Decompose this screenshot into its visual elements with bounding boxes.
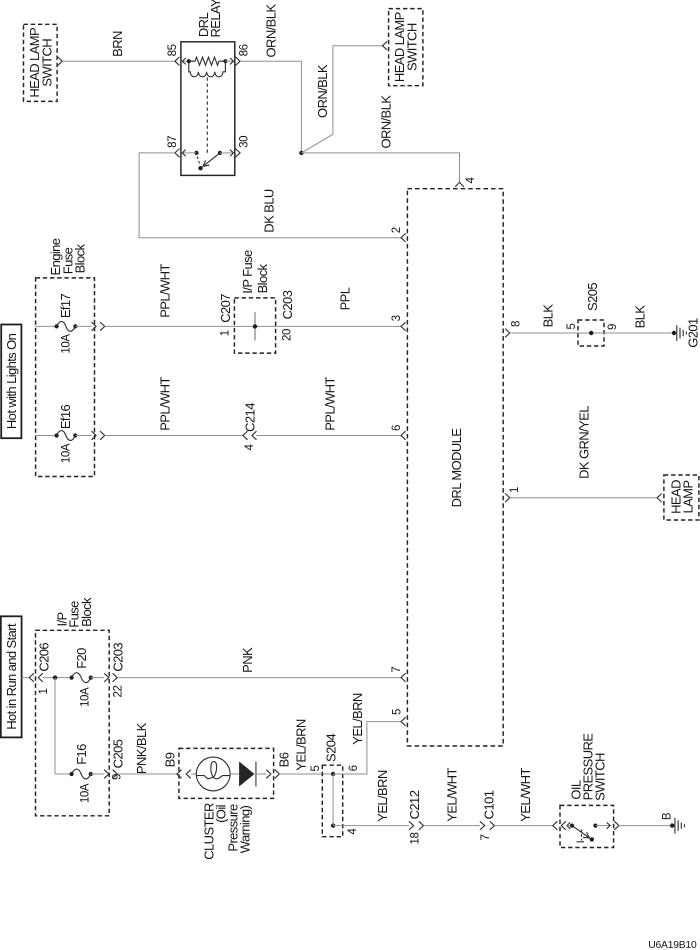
oil switch contacts <box>570 824 598 842</box>
svg-text:6: 6 <box>348 765 360 771</box>
wire to ground B <box>619 825 672 827</box>
svg-text:9: 9 <box>607 324 619 330</box>
wire YEL/BRN to S204 <box>279 773 333 775</box>
svg-text:SWITCH: SWITCH <box>593 753 608 801</box>
svg-text:Block: Block <box>79 597 94 627</box>
svg-text:4: 4 <box>347 828 359 835</box>
svg-text:86: 86 <box>239 44 251 56</box>
relay switch contacts <box>194 151 222 171</box>
svg-text:YEL/BRN: YEL/BRN <box>375 770 390 822</box>
svg-text:U6A19B10: U6A19B10 <box>648 940 697 950</box>
relay coil resistor element <box>187 57 228 65</box>
svg-text:5: 5 <box>310 766 322 772</box>
Hot in Run and Start box <box>1 616 22 737</box>
svg-text:2: 2 <box>391 227 403 233</box>
svg-text:ORN/BLK: ORN/BLK <box>315 64 330 118</box>
pin chevron head lamp switch left <box>58 57 63 66</box>
svg-text:Block: Block <box>73 244 88 274</box>
svg-text:BLK: BLK <box>633 305 648 329</box>
svg-text:C101: C101 <box>481 790 496 819</box>
svg-text:F16: F16 <box>74 744 89 765</box>
svg-text:10A: 10A <box>61 443 73 463</box>
fuse F16 10A <box>70 744 93 803</box>
svg-text:C206: C206 <box>37 643 52 672</box>
svg-text:SWITCH: SWITCH <box>40 39 55 87</box>
svg-text:PPL: PPL <box>338 287 353 310</box>
head lamp switch (left) box <box>24 24 58 101</box>
svg-text:30: 30 <box>239 136 251 148</box>
cluster box <box>179 748 274 859</box>
wire BLK right <box>604 332 672 334</box>
connector C212 <box>407 790 423 844</box>
connector C203 (lower) <box>91 643 126 698</box>
oil pressure switch box <box>560 733 614 848</box>
svg-text:ORN/BLK: ORN/BLK <box>378 95 393 149</box>
svg-text:87: 87 <box>167 136 179 148</box>
wire PNK/BLK <box>117 773 177 775</box>
pin 8 of DRL module <box>505 321 523 337</box>
oil switch exit chevrons <box>595 821 619 830</box>
connector C207 labels <box>218 294 233 337</box>
splice node junction <box>53 675 57 679</box>
svg-text:4: 4 <box>244 444 256 451</box>
svg-text:SWITCH: SWITCH <box>405 23 420 71</box>
wire ORN/BLK to DRL module pin 4 <box>301 153 459 182</box>
svg-text:4: 4 <box>465 177 477 184</box>
svg-text:DRL MODULE: DRL MODULE <box>449 428 464 508</box>
pin 86 <box>225 44 250 65</box>
svg-text:PNK/BLK: PNK/BLK <box>134 722 149 774</box>
svg-text:20: 20 <box>281 329 293 341</box>
pin 5 of DRL module <box>392 709 406 726</box>
pin 6 of DRL module <box>391 425 406 440</box>
fuse F20 10A <box>70 648 93 707</box>
relay actuator dashed line <box>206 78 208 156</box>
wire YEL/WHT 1 <box>424 825 480 827</box>
Hot with Lights On box <box>1 325 21 439</box>
I/P Fuse Block (middle) box <box>234 250 275 353</box>
svg-text:B: B <box>662 812 674 820</box>
diode <box>230 762 266 787</box>
wire junction down to F16 <box>54 678 56 774</box>
wire BLK left <box>510 332 578 334</box>
svg-text:C207: C207 <box>218 294 233 323</box>
svg-text:C212: C212 <box>407 790 422 819</box>
fuse Ef16 10A <box>36 404 105 463</box>
svg-text:C203: C203 <box>111 643 126 672</box>
connector C203 labels (middle) <box>280 290 295 341</box>
I/P Fuse Block (lower) box <box>36 597 110 816</box>
svg-text:22: 22 <box>112 686 124 698</box>
svg-text:7: 7 <box>391 667 403 673</box>
svg-text:YEL/WHT: YEL/WHT <box>445 768 460 822</box>
wire PPL/WHT row2 left <box>105 435 243 437</box>
svg-text:G201: G201 <box>686 318 700 348</box>
pin 87 <box>167 136 196 157</box>
head lamp box <box>664 475 699 520</box>
svg-text:8: 8 <box>511 321 523 327</box>
Engine Fuse Block box <box>36 238 95 476</box>
pin 85 <box>167 44 189 65</box>
svg-text:1: 1 <box>220 330 232 336</box>
pin 1 of DRL module <box>505 487 521 502</box>
svg-text:RELAY: RELAY <box>208 0 223 38</box>
svg-text:5: 5 <box>392 709 404 715</box>
svg-text:PPL/WHT: PPL/WHT <box>158 264 173 318</box>
svg-text:YEL/BRN: YEL/BRN <box>350 693 365 745</box>
svg-text:I/P Fuse: I/P Fuse <box>240 250 255 294</box>
svg-text:1: 1 <box>38 689 50 695</box>
pin chevron head lamp <box>657 494 662 503</box>
svg-text:3: 3 <box>391 315 403 321</box>
svg-text:YEL/WHT: YEL/WHT <box>518 768 533 822</box>
pin 2 of DRL module <box>391 227 406 242</box>
connector B9 <box>163 752 191 778</box>
pin 3 of DRL module <box>391 315 406 330</box>
wire ORN/BLK from pin 86 down <box>240 61 301 153</box>
connector C205 <box>91 739 126 780</box>
svg-text:Hot with Lights On: Hot with Lights On <box>4 333 19 429</box>
svg-text:Ef16: Ef16 <box>58 404 73 429</box>
svg-text:6: 6 <box>391 425 403 431</box>
svg-text:DK GRN/YEL: DK GRN/YEL <box>577 406 592 479</box>
wire ORN/BLK to head lamp switch right <box>301 46 382 153</box>
svg-text:YEL/BRN: YEL/BRN <box>294 719 309 771</box>
ground G201 <box>672 318 700 348</box>
svg-text:DK BLU: DK BLU <box>261 189 276 233</box>
ground B <box>662 812 685 833</box>
svg-text:Ef17: Ef17 <box>58 293 73 318</box>
svg-text:BRN: BRN <box>110 31 125 57</box>
svg-text:S204: S204 <box>323 734 338 762</box>
svg-text:BLK: BLK <box>541 304 556 328</box>
svg-text:Block: Block <box>255 264 270 294</box>
svg-text:1: 1 <box>509 487 521 493</box>
wire PPL/WHT row1 <box>105 325 401 327</box>
DRL module box <box>407 189 503 746</box>
svg-text:B6: B6 <box>276 752 291 767</box>
wire YEL/WHT 2 <box>495 825 553 827</box>
wire inside to fuse F20 <box>43 677 72 679</box>
wire BRN <box>62 60 174 62</box>
svg-text:C214: C214 <box>243 403 258 432</box>
oil switch entry chevrons <box>553 821 572 830</box>
lamp oil pressure warning <box>191 757 230 791</box>
svg-text:10A: 10A <box>79 687 91 707</box>
svg-text:9: 9 <box>112 774 124 780</box>
wire PPL/WHT row2 right <box>257 435 402 437</box>
wire PNK <box>117 677 401 679</box>
svg-text:B9: B9 <box>163 752 178 767</box>
svg-text:5: 5 <box>566 324 578 330</box>
svg-text:LAMP: LAMP <box>681 480 696 513</box>
pin 4 of DRL module <box>455 177 477 187</box>
svg-text:Hot in Run and Start: Hot in Run and Start <box>4 623 19 730</box>
svg-text:18: 18 <box>409 833 421 845</box>
splice S204 box <box>310 734 360 837</box>
head lamp switch (right) box <box>389 9 423 86</box>
connector C214 <box>243 403 258 451</box>
wire to C206 <box>22 677 30 679</box>
junction node <box>299 151 303 155</box>
label DRL RELAY <box>196 0 223 38</box>
wire YEL/BRN to module pin 5 <box>333 722 401 774</box>
svg-text:PPL/WHT: PPL/WHT <box>158 377 173 431</box>
pin 30 <box>220 136 251 157</box>
svg-text:PNK: PNK <box>240 647 255 673</box>
relay coil scallops <box>189 63 226 77</box>
relay DRL RELAY box <box>181 42 235 176</box>
fuse Ef17 10A <box>36 293 105 353</box>
svg-text:10A: 10A <box>61 334 73 354</box>
svg-text:C205: C205 <box>111 739 126 768</box>
svg-text:ORN/BLK: ORN/BLK <box>264 4 279 58</box>
connector C101 <box>480 790 496 840</box>
svg-text:7: 7 <box>480 835 492 841</box>
splice node in I/P fuse block <box>253 312 257 340</box>
pin chevron head lamp switch right <box>383 41 388 50</box>
splice S204-style box S205 <box>566 283 619 346</box>
wire YEL/BRN from S204 pin 4 <box>333 825 409 827</box>
svg-text:F20: F20 <box>74 648 89 669</box>
connector B6 <box>266 752 291 778</box>
svg-text:Warning): Warning) <box>238 806 253 854</box>
svg-text:10A: 10A <box>79 783 91 803</box>
connector C206 <box>29 643 51 695</box>
wire DK GRN/YEL <box>510 497 657 499</box>
svg-text:C203: C203 <box>280 290 295 319</box>
wire DK BLU from pin 87 to module pin 2 <box>139 153 401 238</box>
svg-text:85: 85 <box>167 44 179 56</box>
pin 7 of DRL module <box>391 667 406 682</box>
svg-text:PPL/WHT: PPL/WHT <box>323 377 338 431</box>
svg-text:S205: S205 <box>585 283 600 311</box>
